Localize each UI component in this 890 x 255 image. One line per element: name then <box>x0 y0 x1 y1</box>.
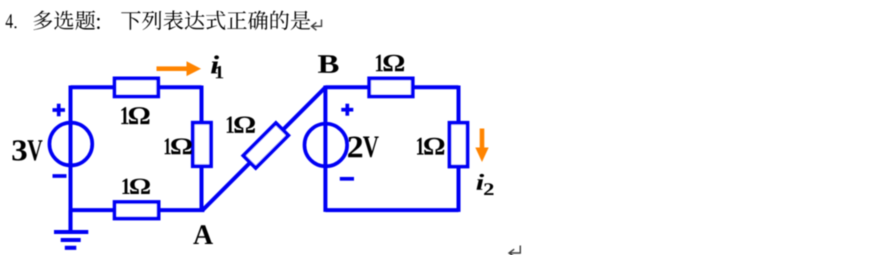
plus sign of source V1 <box>53 104 66 117</box>
node A label <box>193 225 213 244</box>
question number text "4." <box>6 14 17 28</box>
node B label <box>318 55 339 73</box>
paragraph return mark after title <box>312 20 322 31</box>
value label 3V <box>12 140 42 160</box>
minus sign of source V2 <box>340 177 354 181</box>
voltage source V2 2V circle <box>305 124 348 167</box>
value label 1 ohm of R3 <box>122 179 149 194</box>
wire: right loop left vertical segment <box>323 86 327 212</box>
value label 2V <box>348 137 379 158</box>
wire: left loop top segment <box>71 85 202 89</box>
resistor R3 (bottom, 1 ohm) <box>115 202 159 219</box>
wire: left loop left vertical segment <box>69 86 73 212</box>
voltage source V1 3V circle <box>49 123 92 166</box>
current label i1 <box>211 55 223 78</box>
wire: left loop right vertical segment <box>200 86 204 212</box>
wire: left loop bottom segment to node A <box>71 208 205 212</box>
resistor R4 (diagonal between node A and node B, 1 ohm) <box>243 123 288 168</box>
paragraph return mark at bottom <box>509 246 520 255</box>
title text: 多选题：下列表达式正确的是 <box>34 10 311 30</box>
plus sign of source V2 <box>341 104 353 116</box>
current arrow i2 <box>475 129 488 163</box>
value label 1 ohm of R5 <box>376 55 404 72</box>
wire: right loop top segment <box>325 85 458 89</box>
wire: diagonal segment from node A to node B <box>202 87 326 211</box>
minus sign of source V1 <box>53 174 67 178</box>
value label 1 ohm of R1 <box>121 107 149 124</box>
current label i2 <box>477 174 494 195</box>
value label 1 ohm of R4 <box>227 117 255 133</box>
value label 1 ohm of R6 <box>417 138 444 155</box>
ground symbol <box>54 210 88 248</box>
resistor R2 (left loop right branch vertical, 1 ohm) <box>193 123 211 167</box>
wire: right loop right vertical segment <box>457 86 461 212</box>
resistor R1 (top left, 1 ohm) <box>115 78 159 96</box>
wire: right loop bottom segment <box>325 208 458 212</box>
value label 1 ohm of R2 <box>165 138 193 154</box>
current arrow i1 <box>157 61 202 76</box>
resistor R5 (top right, 1 ohm) <box>369 78 413 96</box>
resistor R6 (right vertical, 1 ohm) <box>450 123 468 167</box>
